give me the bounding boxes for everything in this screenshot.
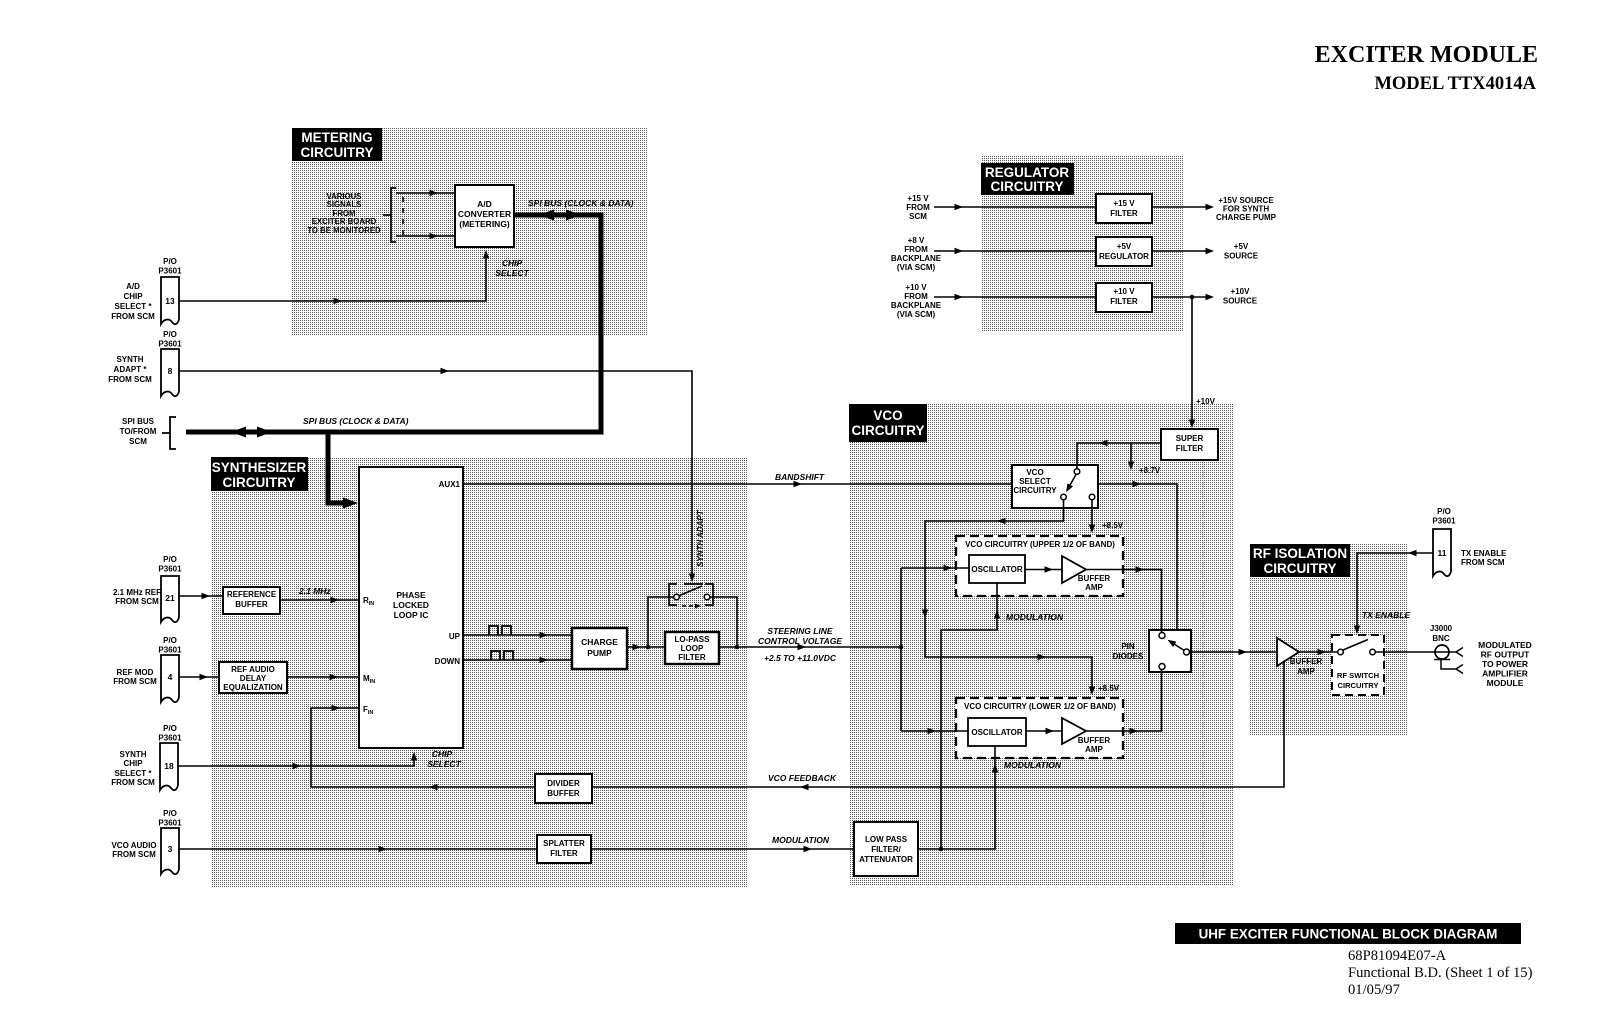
wire: monitored signal lower into A/D converter — [396, 233, 455, 239]
svg-text:EQUALIZATION: EQUALIZATION — [223, 683, 283, 692]
wire: PLL UP output to charge pump — [463, 632, 572, 638]
svg-text:FROM: FROM — [904, 292, 928, 301]
connector P3601 pin 11 (tx enable) — [1432, 507, 1456, 576]
svg-text:LOCKED: LOCKED — [393, 600, 429, 610]
label VCO AUDIO FROM SCM — [111, 841, 156, 859]
wire: oscillator to buffer amp (upper) — [1025, 566, 1062, 572]
svg-text:BACKPLANE: BACKPLANE — [891, 301, 942, 310]
svg-text:P/O: P/O — [1437, 507, 1451, 516]
svg-text:SPLATTER: SPLATTER — [543, 839, 585, 848]
svg-text:11: 11 — [1438, 548, 1447, 558]
svg-text:FROM SCM: FROM SCM — [108, 375, 152, 384]
svg-text:+2.5 TO +11.0VDC: +2.5 TO +11.0VDC — [764, 653, 837, 663]
wire: +15V into filter — [934, 204, 1096, 210]
pin diodes switch — [1149, 630, 1191, 672]
svg-text:2.1 MHz REF: 2.1 MHz REF — [113, 588, 161, 597]
document number block — [1348, 948, 1533, 998]
svg-text:+10V: +10V — [1196, 397, 1216, 406]
svg-text:FILTER: FILTER — [678, 653, 706, 662]
svg-text:FILTER: FILTER — [1110, 209, 1138, 218]
svg-text:P/O: P/O — [163, 809, 177, 818]
svg-text:2.1 MHz: 2.1 MHz — [298, 586, 331, 596]
svg-text:LOW PASS: LOW PASS — [865, 835, 908, 844]
wire: RF buffer amp to RF switch — [1299, 649, 1337, 655]
svg-text:RF ISOLATION: RF ISOLATION — [1253, 546, 1347, 561]
svg-text:+10 V: +10 V — [905, 283, 927, 292]
svg-text:P/O: P/O — [163, 636, 177, 645]
svg-text:CIRCUITRY: CIRCUITRY — [223, 475, 296, 490]
svg-text:CIRCUITRY: CIRCUITRY — [1013, 486, 1057, 495]
wire: switch right contact down to steering line — [710, 597, 739, 649]
section label: METERING CIRCUITRY — [292, 128, 382, 161]
label PIN DIODES — [1113, 642, 1144, 661]
wire: pin diodes output to RF buffer amp — [1191, 649, 1277, 655]
svg-text:+15 V: +15 V — [1113, 199, 1135, 208]
wire: lower buffer amp output to pin diodes — [1086, 670, 1162, 734]
svg-text:FROM SCM: FROM SCM — [111, 312, 155, 321]
svg-text:(VIA SCM): (VIA SCM) — [897, 310, 936, 319]
svg-text:SCM: SCM — [129, 437, 147, 446]
svg-text:TX ENABLE: TX ENABLE — [1362, 610, 1411, 620]
svg-text:PHASE: PHASE — [396, 590, 426, 600]
wire: SPI bus branch into PLL IC — [328, 430, 358, 509]
svg-text:SELECT: SELECT — [427, 759, 461, 769]
wire: steering vertical distribution — [899, 568, 904, 731]
net label CHIP SELECT (metering) — [495, 258, 529, 278]
svg-text:01/05/97: 01/05/97 — [1348, 982, 1400, 998]
splatter filter — [537, 835, 591, 863]
buffer amp (upper) triangle — [1062, 556, 1110, 592]
svg-text:FILTER/: FILTER/ — [871, 845, 901, 854]
svg-text:CONTROL VOLTAGE: CONTROL VOLTAGE — [758, 636, 842, 646]
svg-text:CHARGE: CHARGE — [581, 637, 618, 647]
label A/D CHIP SELECT* FROM SCM — [111, 282, 155, 321]
wire: +10V into filter — [934, 294, 1096, 300]
svg-text:J3000: J3000 — [1430, 624, 1453, 633]
svg-text:CIRCUITRY: CIRCUITRY — [1337, 681, 1378, 690]
svg-text:PUMP: PUMP — [587, 648, 612, 658]
wire: steering into oscillator (lower) — [901, 728, 968, 734]
label 2.1 MHz REF FROM SCM — [113, 588, 161, 606]
svg-text:3: 3 — [168, 844, 173, 854]
svg-text:SYNTH: SYNTH — [116, 355, 143, 364]
wire: +5V source output — [1152, 248, 1214, 254]
connector P3601 pin 21 (2.1 MHz ref) — [158, 555, 182, 622]
svg-text:FROM SCM: FROM SCM — [113, 677, 157, 686]
section label: SYNTHESIZER CIRCUITRY — [211, 457, 308, 491]
wire: VCO feedback from RF buffer to divider buffer — [592, 661, 1284, 790]
svg-text:A/D: A/D — [126, 282, 140, 291]
svg-text:P3601: P3601 — [158, 734, 182, 743]
label MODULATED RF OUTPUT TO POWER AMPLIFIER MODULE — [1478, 640, 1532, 688]
regulator circuitry shaded region — [981, 156, 1183, 332]
svg-text:BUFFER: BUFFER — [547, 789, 580, 798]
wire: steering into oscillator (upper) — [901, 565, 969, 571]
wire: synth chip select from pin 18 into PLL bottom — [179, 752, 417, 769]
buffer amp (RF isolation) triangle — [1277, 638, 1322, 676]
svg-text:REGULATOR: REGULATOR — [985, 165, 1070, 180]
svg-text:DIODES: DIODES — [1113, 652, 1144, 661]
svg-text:BACKPLANE: BACKPLANE — [891, 254, 942, 263]
svg-text:REFERENCE: REFERENCE — [227, 590, 277, 599]
wire: VCO select output to pin diodes — [1098, 481, 1177, 630]
connector P3601 pin 8 (synth adapt) — [158, 330, 182, 396]
waveform glyph on UP line — [489, 626, 511, 635]
svg-text:FROM SCM: FROM SCM — [115, 597, 159, 606]
svg-text:BUFFER: BUFFER — [235, 600, 268, 609]
VCO select circuitry with switch — [1012, 465, 1098, 508]
wire: modulation branch to upper oscillator — [941, 583, 1000, 849]
section label: VCO CIRCUITRY — [849, 404, 927, 442]
svg-text:FROM SCM: FROM SCM — [111, 778, 155, 787]
label +8V FROM BACKPLANE (VIA SCM) — [891, 236, 942, 272]
svg-text:CIRCUITRY: CIRCUITRY — [1264, 561, 1337, 576]
wire: oscillator to buffer amp (lower) — [1026, 728, 1062, 734]
connector P3601 pin 4 (ref mod) — [158, 636, 182, 702]
buffer amp (lower) triangle — [1062, 718, 1110, 754]
super filter — [1161, 429, 1218, 460]
wire: modulation to lower oscillator — [918, 746, 998, 851]
bracket for various signals — [383, 188, 396, 242]
net label STEERING LINE CONTROL VOLTAGE — [758, 626, 842, 663]
wire: +10V down to super filter — [1189, 297, 1195, 428]
svg-text:VCO CIRCUITRY (UPPER 1/2 OF BA: VCO CIRCUITRY (UPPER 1/2 OF BAND) — [965, 540, 1115, 549]
svg-text:CHIP: CHIP — [432, 749, 453, 759]
svg-text:DOWN: DOWN — [435, 657, 461, 666]
wire: SPI bus thick trunk (A/D converter to SCM bracket) — [186, 210, 601, 438]
svg-text:CHIP: CHIP — [123, 292, 143, 301]
connector J3000 BNC — [1434, 645, 1463, 674]
svg-text:21: 21 — [165, 593, 175, 603]
svg-text:P/O: P/O — [163, 724, 177, 733]
label VARIOUS SIGNALS FROM EXCITER BOARD TO BE MONITORED — [307, 192, 381, 235]
svg-text:SPI BUS (CLOCK & DATA): SPI BUS (CLOCK & DATA) — [528, 198, 634, 208]
SPI bus bracket to/from SCM — [162, 417, 176, 449]
wire: RF switch to J3000 BNC — [1376, 651, 1436, 653]
wire: upper buffer amp output to pin diodes — [1086, 566, 1162, 632]
A/D converter (metering) U-block — [455, 185, 514, 247]
svg-text:AMP: AMP — [1085, 583, 1103, 592]
svg-text:RF SWITCH: RF SWITCH — [1337, 671, 1379, 680]
wire: +10V source output — [1152, 294, 1214, 300]
svg-text:CHARGE PUMP: CHARGE PUMP — [1216, 213, 1277, 222]
+5V regulator — [1096, 237, 1152, 266]
svg-text:BANDSHIFT: BANDSHIFT — [775, 472, 825, 482]
svg-text:STEERING LINE: STEERING LINE — [767, 626, 833, 636]
wire: divider buffer output to PLL FIN — [311, 705, 535, 790]
svg-text:Functional B.D. (Sheet 1 of 15: Functional B.D. (Sheet 1 of 15) — [1348, 965, 1533, 981]
svg-text:FILTER: FILTER — [550, 849, 578, 858]
svg-text:MODULATION: MODULATION — [772, 835, 830, 845]
svg-text:BUFFER: BUFFER — [1078, 736, 1111, 745]
svg-text:SPI BUS (CLOCK & DATA): SPI BUS (CLOCK & DATA) — [303, 416, 409, 426]
svg-text:VCO: VCO — [1026, 468, 1043, 477]
svg-text:SYNTHESIZER: SYNTHESIZER — [212, 460, 307, 475]
svg-text:+8.5V: +8.5V — [1102, 521, 1124, 530]
label SYNTH CHIP SELECT* FROM SCM — [111, 750, 155, 787]
wire: bypass up-leg to switch left contact — [648, 597, 673, 647]
synthesizer circuitry shaded region — [211, 457, 748, 888]
svg-text:P3601: P3601 — [158, 819, 182, 828]
svg-text:MODULE: MODULE — [1487, 678, 1524, 688]
label +10V SOURCE — [1223, 287, 1258, 306]
svg-text:EXCITER BOARD: EXCITER BOARD — [312, 217, 377, 226]
wire: +8V into regulator — [934, 248, 1096, 254]
wire: +15V source output — [1152, 204, 1214, 210]
connector P3601 pin 18 (synth chip select) — [158, 724, 182, 790]
charge pump — [572, 628, 627, 669]
svg-text:SOURCE: SOURCE — [1224, 252, 1259, 261]
label SPI BUS TO/FROM SCM — [120, 417, 157, 446]
wire: 2.1 MHz ref from pin 21 to reference buffer — [179, 593, 223, 599]
vco circuitry shaded region — [849, 404, 1234, 885]
svg-text:MODULATED: MODULATED — [1478, 640, 1532, 650]
svg-text:UHF EXCITER FUNCTIONAL BLOCK D: UHF EXCITER FUNCTIONAL BLOCK DIAGRAM — [1199, 927, 1498, 942]
wire: charge pump output to lo-pass loop filter — [627, 644, 665, 650]
section label: REGULATOR CIRCUITRY — [981, 163, 1074, 195]
svg-text:P/O: P/O — [163, 555, 177, 564]
svg-text:DIVIDER: DIVIDER — [547, 779, 580, 788]
svg-text:+10V: +10V — [1231, 287, 1251, 296]
svg-text:REF MOD: REF MOD — [117, 668, 154, 677]
svg-text:SELECT: SELECT — [495, 268, 529, 278]
net label CHIP SELECT (synth) — [427, 749, 461, 769]
svg-text:FROM SCM: FROM SCM — [1461, 558, 1505, 567]
divider buffer — [535, 774, 592, 803]
svg-text:AMPLIFIER: AMPLIFIER — [1482, 669, 1528, 679]
svg-text:4: 4 — [168, 672, 173, 682]
RF switch circuitry (dashed) — [1332, 635, 1384, 695]
svg-text:SUPER: SUPER — [1176, 434, 1204, 443]
svg-text:VCO: VCO — [873, 408, 902, 423]
svg-text:(VIA SCM): (VIA SCM) — [897, 263, 936, 272]
svg-text:BNC: BNC — [1432, 634, 1450, 643]
svg-text:+10 V: +10 V — [1113, 287, 1135, 296]
label +5V SOURCE — [1224, 242, 1259, 261]
title EXCITER MODULE — [1315, 42, 1538, 94]
svg-text:ATTENUATOR: ATTENUATOR — [859, 855, 913, 864]
label +15V FROM SCM — [906, 194, 930, 221]
label TX ENABLE FROM SCM — [1461, 549, 1507, 567]
svg-text:+5V: +5V — [1117, 242, 1132, 251]
svg-text:P3601: P3601 — [158, 340, 182, 349]
wire: A/D chip select from pin 13 — [179, 250, 489, 304]
svg-text:REGULATOR: REGULATOR — [1099, 252, 1149, 261]
svg-text:UP: UP — [449, 632, 461, 641]
wire: delay equalization into PLL MIN — [287, 674, 359, 680]
wire: ref mod from pin 4 — [179, 674, 219, 680]
svg-text:68P81094E07-A: 68P81094E07-A — [1348, 948, 1447, 964]
svg-text:TO/FROM: TO/FROM — [120, 427, 157, 436]
svg-text:SCM: SCM — [909, 212, 927, 221]
svg-text:VCO FEEDBACK: VCO FEEDBACK — [768, 773, 837, 783]
svg-text:13: 13 — [165, 296, 175, 306]
svg-text:VCO CIRCUITRY (LOWER 1/2 OF BA: VCO CIRCUITRY (LOWER 1/2 OF BAND) — [964, 702, 1116, 711]
wire: super filter output to VCO select top contact — [1077, 440, 1161, 468]
VCO circuitry (lower 1/2 of band) dashed block — [956, 698, 1123, 758]
svg-text:SIGNALS: SIGNALS — [327, 200, 362, 209]
wire: 2.1 MHz into PLL RIN — [280, 597, 359, 603]
svg-text:DELAY: DELAY — [240, 674, 267, 683]
svg-text:MODULATION: MODULATION — [1004, 760, 1062, 770]
svg-text:CIRCUITRY: CIRCUITRY — [301, 145, 374, 160]
svg-text:AMP: AMP — [1085, 745, 1103, 754]
wire: splatter filter to low pass filter/attenuator — [591, 846, 854, 852]
bottom title bar UHF EXCITER FUNCTIONAL BLOCK DIAGRAM — [1175, 923, 1521, 944]
ref audio delay equalization — [219, 662, 287, 693]
lo-pass loop filter — [665, 632, 719, 664]
svg-text:VCO AUDIO: VCO AUDIO — [111, 841, 156, 850]
svg-text:+5V: +5V — [1234, 242, 1249, 251]
svg-text:+8.7V: +8.7V — [1139, 466, 1161, 475]
svg-text:METERING: METERING — [301, 130, 372, 145]
svg-text:P3601: P3601 — [158, 565, 182, 574]
svg-text:SYNTH ADAPT: SYNTH ADAPT — [696, 509, 705, 567]
wire: PLL DOWN output to charge pump — [463, 657, 572, 663]
oscillator (upper) — [969, 555, 1025, 583]
svg-text:FROM SCM: FROM SCM — [112, 850, 156, 859]
svg-text:SYNTH: SYNTH — [119, 750, 146, 759]
+10V filter — [1096, 283, 1152, 312]
rf isolation circuitry shaded region — [1250, 544, 1408, 736]
label SYNTH ADAPT* FROM SCM — [108, 355, 152, 384]
svg-text:BUFFER: BUFFER — [1290, 657, 1323, 666]
svg-text:CONVERTER: CONVERTER — [458, 209, 511, 219]
reference buffer — [223, 587, 280, 614]
svg-text:TX ENABLE: TX ENABLE — [1461, 549, 1507, 558]
svg-text:SPI BUS: SPI BUS — [122, 417, 155, 426]
svg-text:OSCILLATOR: OSCILLATOR — [971, 728, 1022, 737]
svg-text:CHIP: CHIP — [123, 759, 143, 768]
photocopy artifact faint line — [1202, 461, 1204, 883]
wire: AUX1 bandshift from PLL to VCO select — [463, 481, 1012, 487]
svg-text:FILTER: FILTER — [1176, 444, 1204, 453]
svg-text:+8.5V: +8.5V — [1098, 684, 1120, 693]
svg-text:LO-PASS: LO-PASS — [675, 635, 711, 644]
section label: RF ISOLATION CIRCUITRY — [1250, 544, 1350, 577]
wire: steering line control voltage — [719, 644, 901, 650]
svg-text:FROM: FROM — [906, 203, 930, 212]
svg-text:P3601: P3601 — [158, 646, 182, 655]
wire: +8.7V branch — [1128, 443, 1134, 470]
svg-text:OSCILLATOR: OSCILLATOR — [971, 565, 1022, 574]
synth adapt bypass switch (dashed relay) — [669, 584, 713, 608]
svg-text:EXCITER MODULE: EXCITER MODULE — [1315, 42, 1538, 68]
svg-text:SELECT *: SELECT * — [115, 302, 153, 311]
svg-text:RF OUTPUT: RF OUTPUT — [1481, 650, 1530, 660]
+15V filter — [1096, 194, 1152, 223]
wire: synth adapt from pin 8 to bypass switch — [179, 368, 695, 582]
svg-text:FILTER: FILTER — [1110, 297, 1138, 306]
label REF MOD FROM SCM — [113, 668, 157, 686]
svg-text:+8 V: +8 V — [908, 236, 925, 245]
svg-text:P3601: P3601 — [158, 267, 182, 276]
VCO circuitry (upper 1/2 of band) dashed block — [956, 536, 1123, 596]
svg-text:A/D: A/D — [477, 199, 492, 209]
svg-text:8: 8 — [168, 366, 173, 376]
wire: monitored signal upper into A/D converter — [396, 190, 455, 196]
svg-text:SELECT *: SELECT * — [115, 769, 153, 778]
wire: vco audio from pin 3 to splatter filter — [179, 846, 537, 852]
svg-text:P/O: P/O — [163, 330, 177, 339]
label +15V SOURCE FOR SYNTH CHARGE PUMP — [1216, 196, 1277, 222]
svg-text:+15 V: +15 V — [907, 194, 929, 203]
dashed ellipsis of monitored signals — [402, 197, 404, 235]
svg-text:BUFFER: BUFFER — [1078, 574, 1111, 583]
svg-text:18: 18 — [164, 761, 174, 771]
label +10V FROM BACKPLANE (VIA SCM) — [891, 283, 942, 319]
svg-text:P/O: P/O — [163, 257, 177, 266]
svg-text:ADAPT *: ADAPT * — [114, 365, 148, 374]
svg-text:CHIP: CHIP — [502, 258, 523, 268]
low pass filter/attenuator — [854, 822, 918, 876]
oscillator (lower) — [968, 718, 1026, 746]
svg-text:CIRCUITRY: CIRCUITRY — [991, 179, 1064, 194]
svg-text:AUX1: AUX1 — [439, 480, 461, 489]
svg-text:P3601: P3601 — [1432, 517, 1456, 526]
svg-text:TO BE MONITORED: TO BE MONITORED — [307, 226, 381, 235]
svg-text:REF AUDIO: REF AUDIO — [231, 665, 275, 674]
svg-text:PIN: PIN — [1121, 642, 1135, 651]
metering circuitry shaded region — [291, 128, 647, 335]
wire: TX enable from pin 11 to RF switch — [1354, 550, 1433, 634]
svg-text:SELECT: SELECT — [1019, 477, 1051, 486]
connector P3601 pin 13 (A/D chip select) — [158, 257, 182, 324]
op-amp PLL: phase locked loop IC U-block — [359, 467, 463, 748]
wire: VCO select right contact +8.5V into upper band — [1089, 500, 1095, 533]
svg-text:LOOP IC: LOOP IC — [394, 610, 429, 620]
connector P3601 pin 3 (vco audio) — [158, 809, 182, 874]
svg-text:(METERING): (METERING) — [459, 219, 510, 229]
waveform glyph on DOWN line — [491, 651, 513, 660]
wire: VCO select left contact to lower VCO band select — [922, 500, 1095, 695]
svg-text:AMP: AMP — [1297, 667, 1315, 676]
svg-text:CIRCUITRY: CIRCUITRY — [852, 423, 925, 438]
svg-text:SOURCE: SOURCE — [1223, 297, 1258, 306]
svg-text:MODULATION: MODULATION — [1006, 612, 1064, 622]
label J3000 BNC — [1430, 624, 1453, 643]
svg-text:LOOP: LOOP — [681, 644, 704, 653]
svg-text:FROM: FROM — [904, 245, 928, 254]
svg-text:TO POWER: TO POWER — [1482, 659, 1528, 669]
svg-text:MODEL TTX4014A: MODEL TTX4014A — [1374, 74, 1536, 94]
